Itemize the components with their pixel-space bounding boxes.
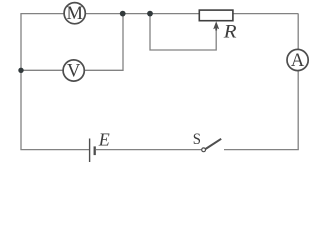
wire: bottom left segment to battery [20,149,89,151]
wire: rheostat wiper loop [150,14,216,50]
motor M [64,3,85,24]
wire: right vertical side [297,14,299,150]
node: junction dot on top wire (wiper tap) [147,11,153,17]
ammeter A [287,49,308,70]
svg-text:M: M [66,4,82,24]
svg-text:R: R [223,21,237,42]
battery E long plate [89,139,91,163]
switch S pivot [202,148,206,152]
svg-text:E: E [98,130,110,150]
wire: voltmeter branch [21,14,123,71]
svg-text:S: S [193,131,201,148]
voltmeter V [63,60,84,81]
resistor R body [199,10,233,21]
switch S blade [206,139,222,149]
wire: battery to switch segment [96,149,202,151]
wire: top horizontal side [20,13,298,15]
wire: switch to bottom right corner [224,149,299,151]
resistor R wiper arrow [213,21,219,30]
svg-text:A: A [291,51,305,71]
node: junction dot on top wire (voltmeter tap) [120,11,126,17]
svg-text:V: V [67,62,81,82]
battery E short plate [94,146,96,155]
wire: left vertical side [20,14,22,150]
node: junction dot on left wire [18,68,23,73]
